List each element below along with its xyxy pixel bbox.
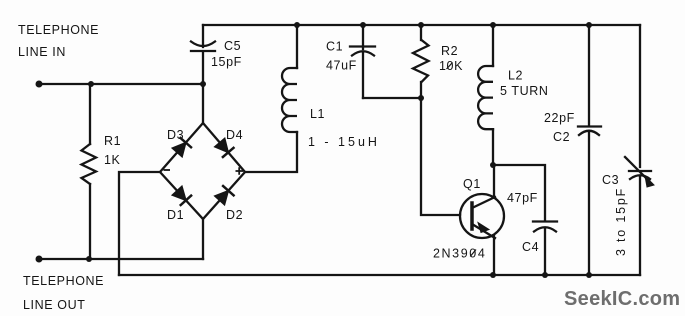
inductor L1 (245, 25, 297, 172)
svg-text:D2: D2 (226, 208, 243, 222)
wire telephone line in (39, 83, 203, 85)
resistor R2 (413, 25, 429, 98)
svg-text:47uF: 47uF (326, 59, 357, 73)
svg-text:C4: C4 (522, 240, 539, 254)
wire bridge negative node to ground bus (119, 172, 160, 275)
capacitor C2 (578, 25, 601, 275)
node emitter bus junction (490, 272, 496, 278)
wire bridge bottom lead (202, 219, 204, 259)
svg-text:R1: R1 (104, 134, 121, 148)
wire right branch bottom (639, 176, 641, 275)
wire bridge top lead (202, 84, 204, 123)
capacitor C4 (533, 222, 557, 276)
node C1 top junction (360, 22, 366, 28)
svg-text:TELEPHONE: TELEPHONE (23, 274, 104, 288)
svg-text:LINE IN: LINE IN (18, 45, 66, 59)
svg-text:22pF: 22pF (544, 111, 575, 125)
svg-text:LINE OUT: LINE OUT (23, 298, 85, 312)
diode D1 (172, 186, 191, 205)
svg-text:C1: C1 (326, 40, 343, 54)
wire telephone line out (39, 258, 203, 260)
svg-text:3 to 15pF: 3 to 15pF (614, 187, 628, 256)
svg-text:10K: 10K (439, 59, 463, 73)
svg-text:L1: L1 (310, 107, 325, 121)
capacitor C5 (191, 25, 215, 84)
svg-text:2N3904: 2N3904 (433, 247, 486, 261)
wire collector node to C4 (493, 165, 545, 221)
wire top bus (203, 24, 640, 26)
svg-text:D4: D4 (226, 128, 243, 142)
svg-text:1K: 1K (104, 153, 121, 167)
label plus node (236, 167, 244, 175)
transistor Q1 (460, 165, 504, 275)
svg-text:D3: D3 (167, 128, 184, 142)
svg-text:C5: C5 (224, 39, 241, 53)
svg-text:R2: R2 (441, 44, 458, 58)
node C2 top junction (586, 22, 592, 28)
svg-text:1 - 15uH: 1 - 15uH (308, 135, 380, 149)
node C5 bottom junction (200, 81, 206, 87)
label 10K slashed zero (447, 63, 453, 70)
node R2 top junction (418, 22, 424, 28)
capacitor C1 (350, 25, 375, 98)
label minus node (164, 169, 171, 171)
svg-text:C3: C3 (602, 173, 619, 187)
inductor L2 (478, 25, 493, 165)
node R1 top junction (88, 81, 94, 87)
node L1 top junction (294, 22, 300, 28)
variable capacitor C3 (625, 157, 654, 187)
svg-text:47pF: 47pF (507, 191, 538, 205)
diode D3 (172, 138, 191, 157)
svg-text:TELEPHONE: TELEPHONE (18, 23, 99, 37)
node R1 bottom junction (86, 256, 92, 262)
svg-text:L2: L2 (508, 69, 523, 83)
diode D2 (215, 186, 234, 205)
wire right branch top (639, 25, 641, 167)
svg-text:SeekIC.com: SeekIC.com (564, 288, 680, 310)
node R2 bottom junction (418, 95, 424, 101)
svg-text:15pF: 15pF (211, 55, 242, 69)
wire C1 to R2 bottom (363, 97, 421, 99)
svg-text:C2: C2 (553, 130, 570, 144)
node C4 bus junction (542, 272, 548, 278)
svg-text:D1: D1 (167, 208, 184, 222)
wire bottom bus (119, 274, 640, 276)
node telephone line in terminal (36, 81, 43, 88)
node collector junction (490, 162, 496, 168)
diode D4 (215, 138, 234, 157)
wire base of Q1 (421, 98, 460, 215)
svg-text:Q1: Q1 (463, 177, 481, 191)
diode bridge diamond (160, 123, 245, 219)
label 2N3904 slashed zero (470, 250, 476, 257)
node C2 bus junction (586, 272, 592, 278)
node L2 top junction (490, 22, 496, 28)
node telephone line out terminal (36, 256, 43, 263)
resistor R1 (82, 84, 97, 259)
svg-text:5 TURN: 5 TURN (500, 84, 549, 98)
